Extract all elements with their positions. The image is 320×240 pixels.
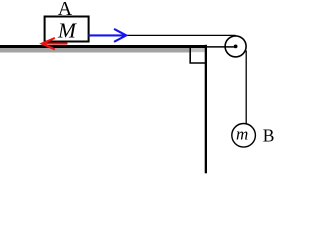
pulley axle dot — [234, 45, 238, 49]
table top shadow band — [0, 48, 189, 53]
red arrow (friction force, pointing left) — [42, 38, 67, 49]
pulley axle support line — [205, 46, 236, 48]
wire: vertical string from pulley to mass — [245, 51, 247, 124]
block M — [45, 17, 89, 42]
blue arrow (tension force, pointing right) — [89, 29, 126, 41]
table edge vertical line — [205, 45, 207, 174]
svg-text:m: m — [236, 124, 248, 143]
table shadow light part — [189, 48, 205, 52]
table top surface — [0, 45, 207, 48]
wire: string from block to pulley top — [90, 34, 236, 36]
svg-text:M: M — [57, 19, 77, 43]
svg-text:B: B — [263, 125, 275, 145]
right-angle square at table edge — [190, 47, 206, 63]
pulley circle — [225, 36, 246, 57]
pulley axle line inside — [225, 46, 236, 48]
hanging mass m circle — [232, 124, 256, 148]
